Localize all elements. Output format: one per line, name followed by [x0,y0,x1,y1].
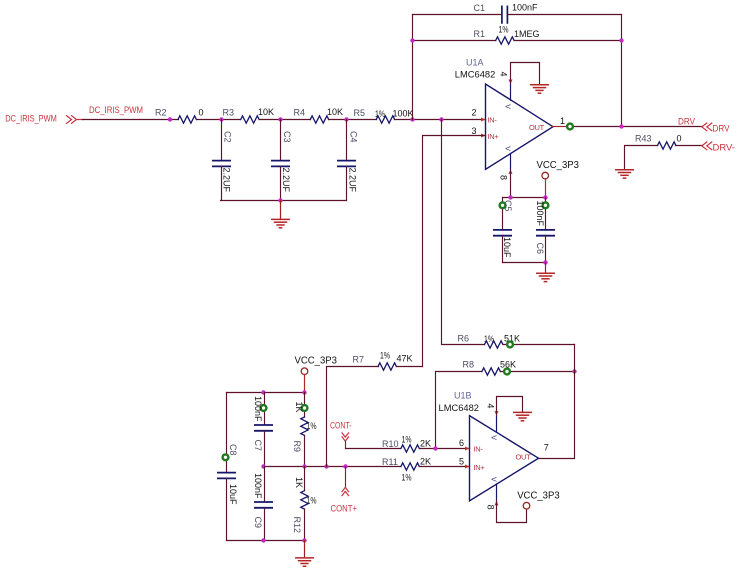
junction vcc rail [543,195,547,199]
wire R3 to R4 [260,119,311,121]
wire C1 top left [413,14,501,16]
junction R9/R12 middle [302,464,306,468]
svg-text:DRV: DRV [713,124,730,134]
ground bottom [296,541,313,567]
junction C7/C9 middle [261,464,265,468]
port DC_IRIS_PWM (input off-page connector) [5,114,83,124]
ground R43 [616,170,633,178]
svg-text:V: V [503,146,510,151]
svg-text:2.2UF: 2.2UF [221,168,231,193]
svg-text:CONT-: CONT- [330,421,352,431]
svg-text:CONT+: CONT+ [331,504,358,514]
svg-text:2.2UF: 2.2UF [281,168,291,193]
svg-text:IN+: IN+ [488,132,500,141]
op-amp U1A [455,58,565,181]
capacitor C4 [338,120,358,201]
resistor R3 [223,107,275,123]
wire R43 left + ground drop [625,146,658,170]
svg-text:4: 4 [499,72,509,77]
junction feedback left [410,117,414,121]
svg-text:2.2UF: 2.2UF [347,168,357,193]
svg-text:LMC6482: LMC6482 [455,70,496,81]
capacitor C7 [253,393,272,467]
wire R10 to U1B pin6 [420,448,470,450]
junction C4 [344,117,348,121]
ground U1B pin4 [514,412,531,420]
wire R1 left [413,40,496,42]
wire R6 drop vertical [442,120,485,345]
wire middle rail [265,466,401,468]
wire C5/C6 top rail [503,197,546,199]
port DRV [702,123,730,134]
svg-text:IN-: IN- [488,115,498,124]
svg-text:R10: R10 [382,439,399,449]
wire U1A pin8 down [510,171,512,198]
svg-text:R6: R6 [458,334,470,344]
power VCC_3P3 upper [537,160,580,198]
resistor R2 [155,108,204,124]
svg-text:1%: 1% [402,435,412,445]
svg-text:10K: 10K [258,107,274,117]
wire U1A pin4 to ground [511,63,540,85]
svg-text:100nF: 100nF [253,473,263,499]
wire R5 to U1A pin2 [395,119,486,121]
wire U1A output [553,126,567,128]
svg-text:10uF: 10uF [228,484,238,505]
resistor R9 [292,393,317,467]
resistor R6 [458,334,521,349]
port DRV- [702,142,735,153]
junction C9 bottom [261,538,265,542]
svg-text:6: 6 [459,438,464,448]
svg-text:1MEG: 1MEG [514,29,540,39]
svg-text:C7: C7 [253,440,263,452]
svg-text:R8: R8 [463,360,475,370]
donut R8 [504,369,510,375]
wire cap bottoms [221,200,347,202]
ground below C3 [272,201,289,228]
junction VCC/R9 [302,390,306,394]
svg-text:1%: 1% [307,421,317,431]
junction R1 right [619,38,623,42]
junction R12 bottom [302,538,306,542]
capacitor C8 [218,393,238,541]
svg-text:1K: 1K [294,402,304,413]
svg-text:C1: C1 [474,3,486,13]
junction R6 drop [439,117,443,121]
svg-text:100nF: 100nF [253,396,263,422]
svg-text:OUT: OUT [516,453,532,462]
svg-text:8: 8 [485,505,495,510]
svg-text:2: 2 [472,108,477,118]
resistor R10 [382,435,431,453]
op-amp U1B [439,391,549,510]
svg-text:U1B: U1B [454,391,472,401]
svg-text:DRV: DRV [678,116,695,126]
svg-text:100K: 100K [393,109,414,119]
capacitor C1 [474,3,539,23]
svg-text:C6: C6 [535,243,545,255]
wire U1A pin3 to R7 vertical [423,136,486,367]
capacitor C6 [535,198,554,263]
svg-text:C9: C9 [253,517,263,529]
svg-text:DC_IRIS_PWM: DC_IRIS_PWM [5,114,57,124]
port CONT- [330,421,352,449]
svg-text:C4: C4 [348,131,358,143]
wire feedback left vertical [412,15,414,120]
wire R1 right [515,40,622,42]
port CONT+ [331,467,358,514]
resistor R11 [382,457,431,483]
junction C2 [219,117,223,121]
junction R8/R6 right vertical [572,369,576,373]
svg-text:R7: R7 [353,355,365,365]
wire right vertical to U1B out [539,345,575,459]
junction R1 left [410,38,414,42]
wire R6 right [503,344,575,346]
junction R7 drop middle [324,464,328,468]
wire U1B pin4 to ground [497,397,523,415]
svg-text:C8: C8 [228,444,238,456]
svg-text:C5: C5 [503,200,513,212]
svg-text:7: 7 [544,442,549,452]
power VCC_3P3 lower-left [295,356,338,393]
svg-text:0: 0 [677,134,682,144]
resistor R8 [463,360,517,376]
svg-text:U1A: U1A [466,58,484,68]
wire R11 to U1B pin5 [420,466,470,468]
capacitor C3 [272,120,292,201]
donut U1A pin1 [567,124,573,130]
svg-text:R9: R9 [292,441,302,453]
resistor R12 [292,467,317,541]
svg-text:3: 3 [472,126,477,136]
wire top rail lower section [227,392,305,394]
wire bottom rail lower section [227,540,305,542]
ground C5/C6 [537,263,554,282]
svg-text:R1: R1 [474,29,486,39]
power VCC_3P3 lower-right [517,491,560,509]
svg-text:R43: R43 [635,134,652,144]
junction at R2 left [168,117,172,121]
wire input to R2 [83,119,179,121]
svg-text:IN-: IN- [474,444,484,453]
svg-text:R3: R3 [223,108,235,118]
svg-text:C3: C3 [282,131,292,143]
svg-text:VCC_3P3: VCC_3P3 [537,160,580,171]
svg-text:V: V [490,435,497,440]
svg-text:OUT: OUT [529,123,545,132]
ground U1A pin4 [531,85,548,93]
svg-text:8: 8 [499,175,509,180]
wire R8 left vertical [436,372,482,449]
junction cap ground [278,198,282,202]
wire R7 left drop [327,367,379,467]
svg-text:R4: R4 [294,108,306,118]
capacitor C2 [213,120,232,201]
svg-text:VCC_3P3: VCC_3P3 [517,491,560,502]
junction C3 [278,117,282,121]
svg-text:2K: 2K [420,457,431,467]
svg-text:2K: 2K [420,439,431,449]
junction pin8 rail [508,195,512,199]
resistor R4 [294,107,344,123]
svg-text:4: 4 [485,403,495,408]
junction C7 top [261,390,265,394]
resistor R7 [353,351,413,371]
svg-text:R2: R2 [155,108,167,118]
svg-text:LMC6482: LMC6482 [439,403,480,414]
wire R43 to port [676,145,703,147]
svg-text:10uF: 10uF [502,237,512,258]
wire R2 to R3 [197,119,241,121]
wire feedback right vertical [621,15,623,127]
resistor R43 [635,134,682,150]
svg-text:R5: R5 [354,108,366,118]
svg-text:C2: C2 [222,131,232,143]
wire U1B pin8 to VCC [497,501,527,523]
wire R7 right [397,366,423,368]
svg-text:DRV-: DRV- [713,143,736,153]
junction bottom rail [543,260,547,264]
svg-text:1%: 1% [307,496,317,506]
svg-text:5: 5 [459,457,464,467]
wire C5/C6 bottom rail [503,262,546,264]
svg-text:1%: 1% [380,351,390,361]
svg-text:1%: 1% [402,473,412,483]
svg-text:R11: R11 [382,457,398,467]
svg-text:47K: 47K [397,354,413,364]
wire C1 top right [509,14,622,16]
wire CONT- to R10 [346,448,401,450]
wire R4 to R5 [329,119,377,121]
capacitor C9 [253,467,272,541]
svg-text:VCC_3P3: VCC_3P3 [295,356,338,367]
svg-text:10K: 10K [327,107,343,117]
svg-text:1K: 1K [294,477,304,488]
svg-text:DC_IRIS_PWM: DC_IRIS_PWM [89,105,143,115]
wire R8 right [501,371,575,373]
svg-text:1%: 1% [499,25,509,35]
capacitor C5 [494,198,513,263]
svg-text:V: V [490,477,497,482]
donut R6 [507,342,513,348]
resistor R1 [474,25,540,45]
svg-text:R12: R12 [292,517,302,534]
junction CONT+ middle [343,464,347,468]
resistor R5 [354,108,414,123]
junction output feedback [619,124,623,128]
svg-text:V: V [503,104,510,109]
junction R8 drop [433,446,437,450]
svg-text:100nF: 100nF [535,201,545,227]
svg-text:IN+: IN+ [474,463,486,472]
svg-text:100nF: 100nF [512,3,538,13]
svg-text:0: 0 [199,108,204,118]
svg-text:1: 1 [560,116,565,126]
